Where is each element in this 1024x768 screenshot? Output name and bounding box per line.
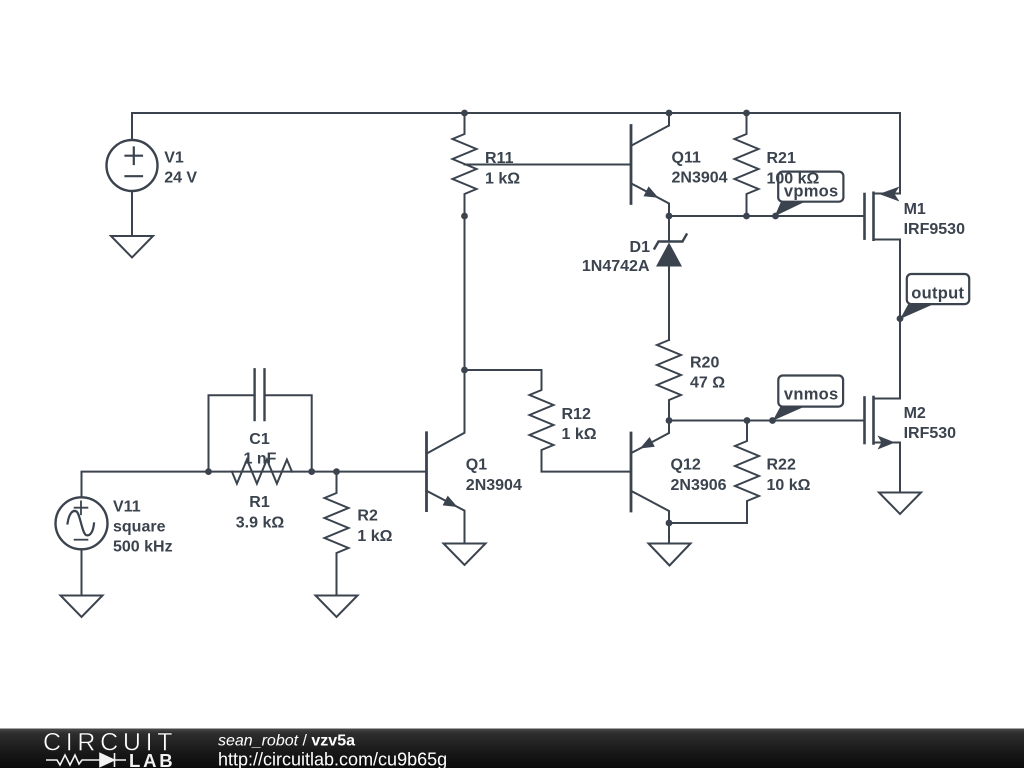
svg-text:47 Ω: 47 Ω bbox=[690, 374, 725, 391]
svg-text:R22: R22 bbox=[767, 457, 796, 474]
wire top rail V1 to M1 source corner bbox=[132, 113, 900, 194]
node dot top rail R11 bbox=[461, 110, 468, 117]
svg-text:sean_robot / vzv5a: sean_robot / vzv5a bbox=[218, 733, 355, 750]
arrow Q1 emitter bbox=[443, 496, 458, 507]
voltage source V11 bbox=[56, 497, 108, 549]
ground below Q1 bbox=[444, 544, 486, 566]
svg-text:C1: C1 bbox=[249, 431, 270, 448]
svg-text:Q11: Q11 bbox=[672, 149, 701, 166]
svg-text:R2: R2 bbox=[357, 508, 378, 525]
svg-text:output: output bbox=[911, 284, 964, 302]
svg-text:R20: R20 bbox=[690, 354, 719, 371]
wire vnmos rail bbox=[669, 420, 864, 422]
svg-text:square: square bbox=[113, 518, 166, 535]
svg-text:M2: M2 bbox=[904, 405, 926, 422]
svg-text:Q12: Q12 bbox=[671, 457, 701, 474]
wire Q12 collector to ground bbox=[668, 523, 670, 544]
svg-text:http://circuitlab.com/cu9b65g: http://circuitlab.com/cu9b65g bbox=[218, 750, 447, 768]
svg-text:Q1: Q1 bbox=[466, 457, 487, 474]
node dot vpmos rail R21 bbox=[743, 213, 750, 220]
mosfet M1 gate bar bbox=[863, 194, 866, 239]
node dot Q1 collector bbox=[461, 367, 468, 374]
svg-text:R1: R1 bbox=[249, 494, 270, 511]
svg-text:D1: D1 bbox=[630, 239, 651, 256]
svg-text:1N4742A: 1N4742A bbox=[582, 258, 650, 275]
svg-text:LAB: LAB bbox=[129, 750, 175, 768]
svg-text:1 nF: 1 nF bbox=[244, 451, 277, 468]
svg-text:24 V: 24 V bbox=[164, 170, 197, 187]
svg-text:IRF530: IRF530 bbox=[904, 425, 957, 442]
node dot R11 bottom bbox=[461, 213, 468, 220]
wire vpmos rail bbox=[669, 215, 864, 217]
node dot base rail C1 left bbox=[205, 468, 212, 475]
transistor Q1 bbox=[425, 433, 428, 511]
mosfet M1 channel bar bbox=[872, 193, 875, 240]
resistor R20 bbox=[657, 340, 681, 421]
wire R11 to Q11 base bbox=[465, 164, 632, 166]
ground below V11 bbox=[61, 596, 103, 618]
resistor R1 bbox=[232, 460, 292, 484]
svg-text:IRF9530: IRF9530 bbox=[904, 221, 965, 238]
svg-text:2N3904: 2N3904 bbox=[672, 170, 728, 187]
svg-text:3.9 kΩ: 3.9 kΩ bbox=[236, 514, 285, 531]
resistor R22 bbox=[669, 421, 759, 524]
svg-text:R21: R21 bbox=[767, 150, 796, 167]
resistor R21 bbox=[735, 113, 759, 216]
arrow M2 source (points right) bbox=[878, 436, 896, 450]
svg-text:1 kΩ: 1 kΩ bbox=[485, 170, 520, 187]
ground below Q12 bbox=[649, 544, 691, 566]
wire V11 to base rail bbox=[82, 472, 427, 498]
svg-text:10 kΩ: 10 kΩ bbox=[767, 477, 811, 494]
svg-text:R12: R12 bbox=[562, 406, 591, 423]
svg-text:2N3904: 2N3904 bbox=[466, 477, 522, 494]
wire V11 minus to ground bbox=[81, 549, 83, 595]
svg-text:vnmos: vnmos bbox=[784, 386, 839, 404]
zener D1 triangle bbox=[656, 243, 682, 267]
svg-text:2N3906: 2N3906 bbox=[671, 477, 727, 494]
svg-text:R11: R11 bbox=[485, 150, 514, 167]
resistor R2 bbox=[325, 472, 349, 596]
node flag output bbox=[900, 274, 969, 319]
mosfet M2 gate bar bbox=[863, 398, 866, 444]
node dot output bbox=[897, 315, 904, 322]
node flag vpmos bbox=[775, 172, 844, 217]
node dot vpmos rail left bbox=[666, 213, 673, 220]
svg-text:100 kΩ: 100 kΩ bbox=[767, 170, 820, 187]
transistor Q12 bbox=[630, 433, 633, 511]
svg-text:1 kΩ: 1 kΩ bbox=[562, 426, 597, 443]
svg-text:V11: V11 bbox=[113, 498, 141, 515]
ground below R2 bbox=[316, 596, 358, 618]
node dot vnmos rail left bbox=[666, 417, 673, 424]
resistor R11 bbox=[453, 113, 477, 216]
ground below M2 bbox=[879, 493, 921, 515]
ground below V1 bbox=[111, 236, 153, 258]
capacitor C1 bbox=[209, 395, 312, 471]
diode D1 zener bbox=[655, 235, 687, 249]
wire R11 bottom to Q1 collector node bbox=[464, 216, 466, 370]
voltage source V1 bbox=[107, 140, 158, 191]
node dot top rail R21 bbox=[743, 110, 750, 117]
node dot Q12 collector bbox=[666, 520, 673, 527]
node dot vnmos tap bbox=[769, 417, 776, 424]
svg-text:500 kHz: 500 kHz bbox=[113, 538, 173, 555]
svg-text:V1: V1 bbox=[164, 149, 184, 166]
wire V1 minus to ground bbox=[131, 191, 133, 236]
mosfet M1 leads bbox=[874, 194, 901, 319]
footer bar bbox=[0, 729, 1024, 768]
resistor R12 bbox=[465, 370, 632, 472]
node dot top rail Q11 bbox=[666, 110, 673, 117]
mosfet M2 leads bbox=[874, 319, 901, 493]
svg-text:1 kΩ: 1 kΩ bbox=[357, 528, 392, 545]
node flag vnmos bbox=[773, 376, 843, 421]
node dot vpmos tap bbox=[772, 213, 779, 220]
mosfet M2 channel bar bbox=[872, 397, 875, 444]
arrow M1 source (points left) bbox=[879, 187, 900, 202]
logo zigzag wire and diode bbox=[46, 755, 126, 765]
arrow Q11 emitter bbox=[644, 186, 659, 197]
arrow Q12 emitter bbox=[640, 437, 655, 449]
node dot vnmos rail R22 bbox=[744, 417, 751, 424]
transistor Q11 bbox=[630, 126, 633, 204]
node dot base rail R2 bbox=[333, 468, 340, 475]
svg-text:M1: M1 bbox=[904, 201, 926, 218]
node dot base rail C1 right bbox=[308, 468, 315, 475]
